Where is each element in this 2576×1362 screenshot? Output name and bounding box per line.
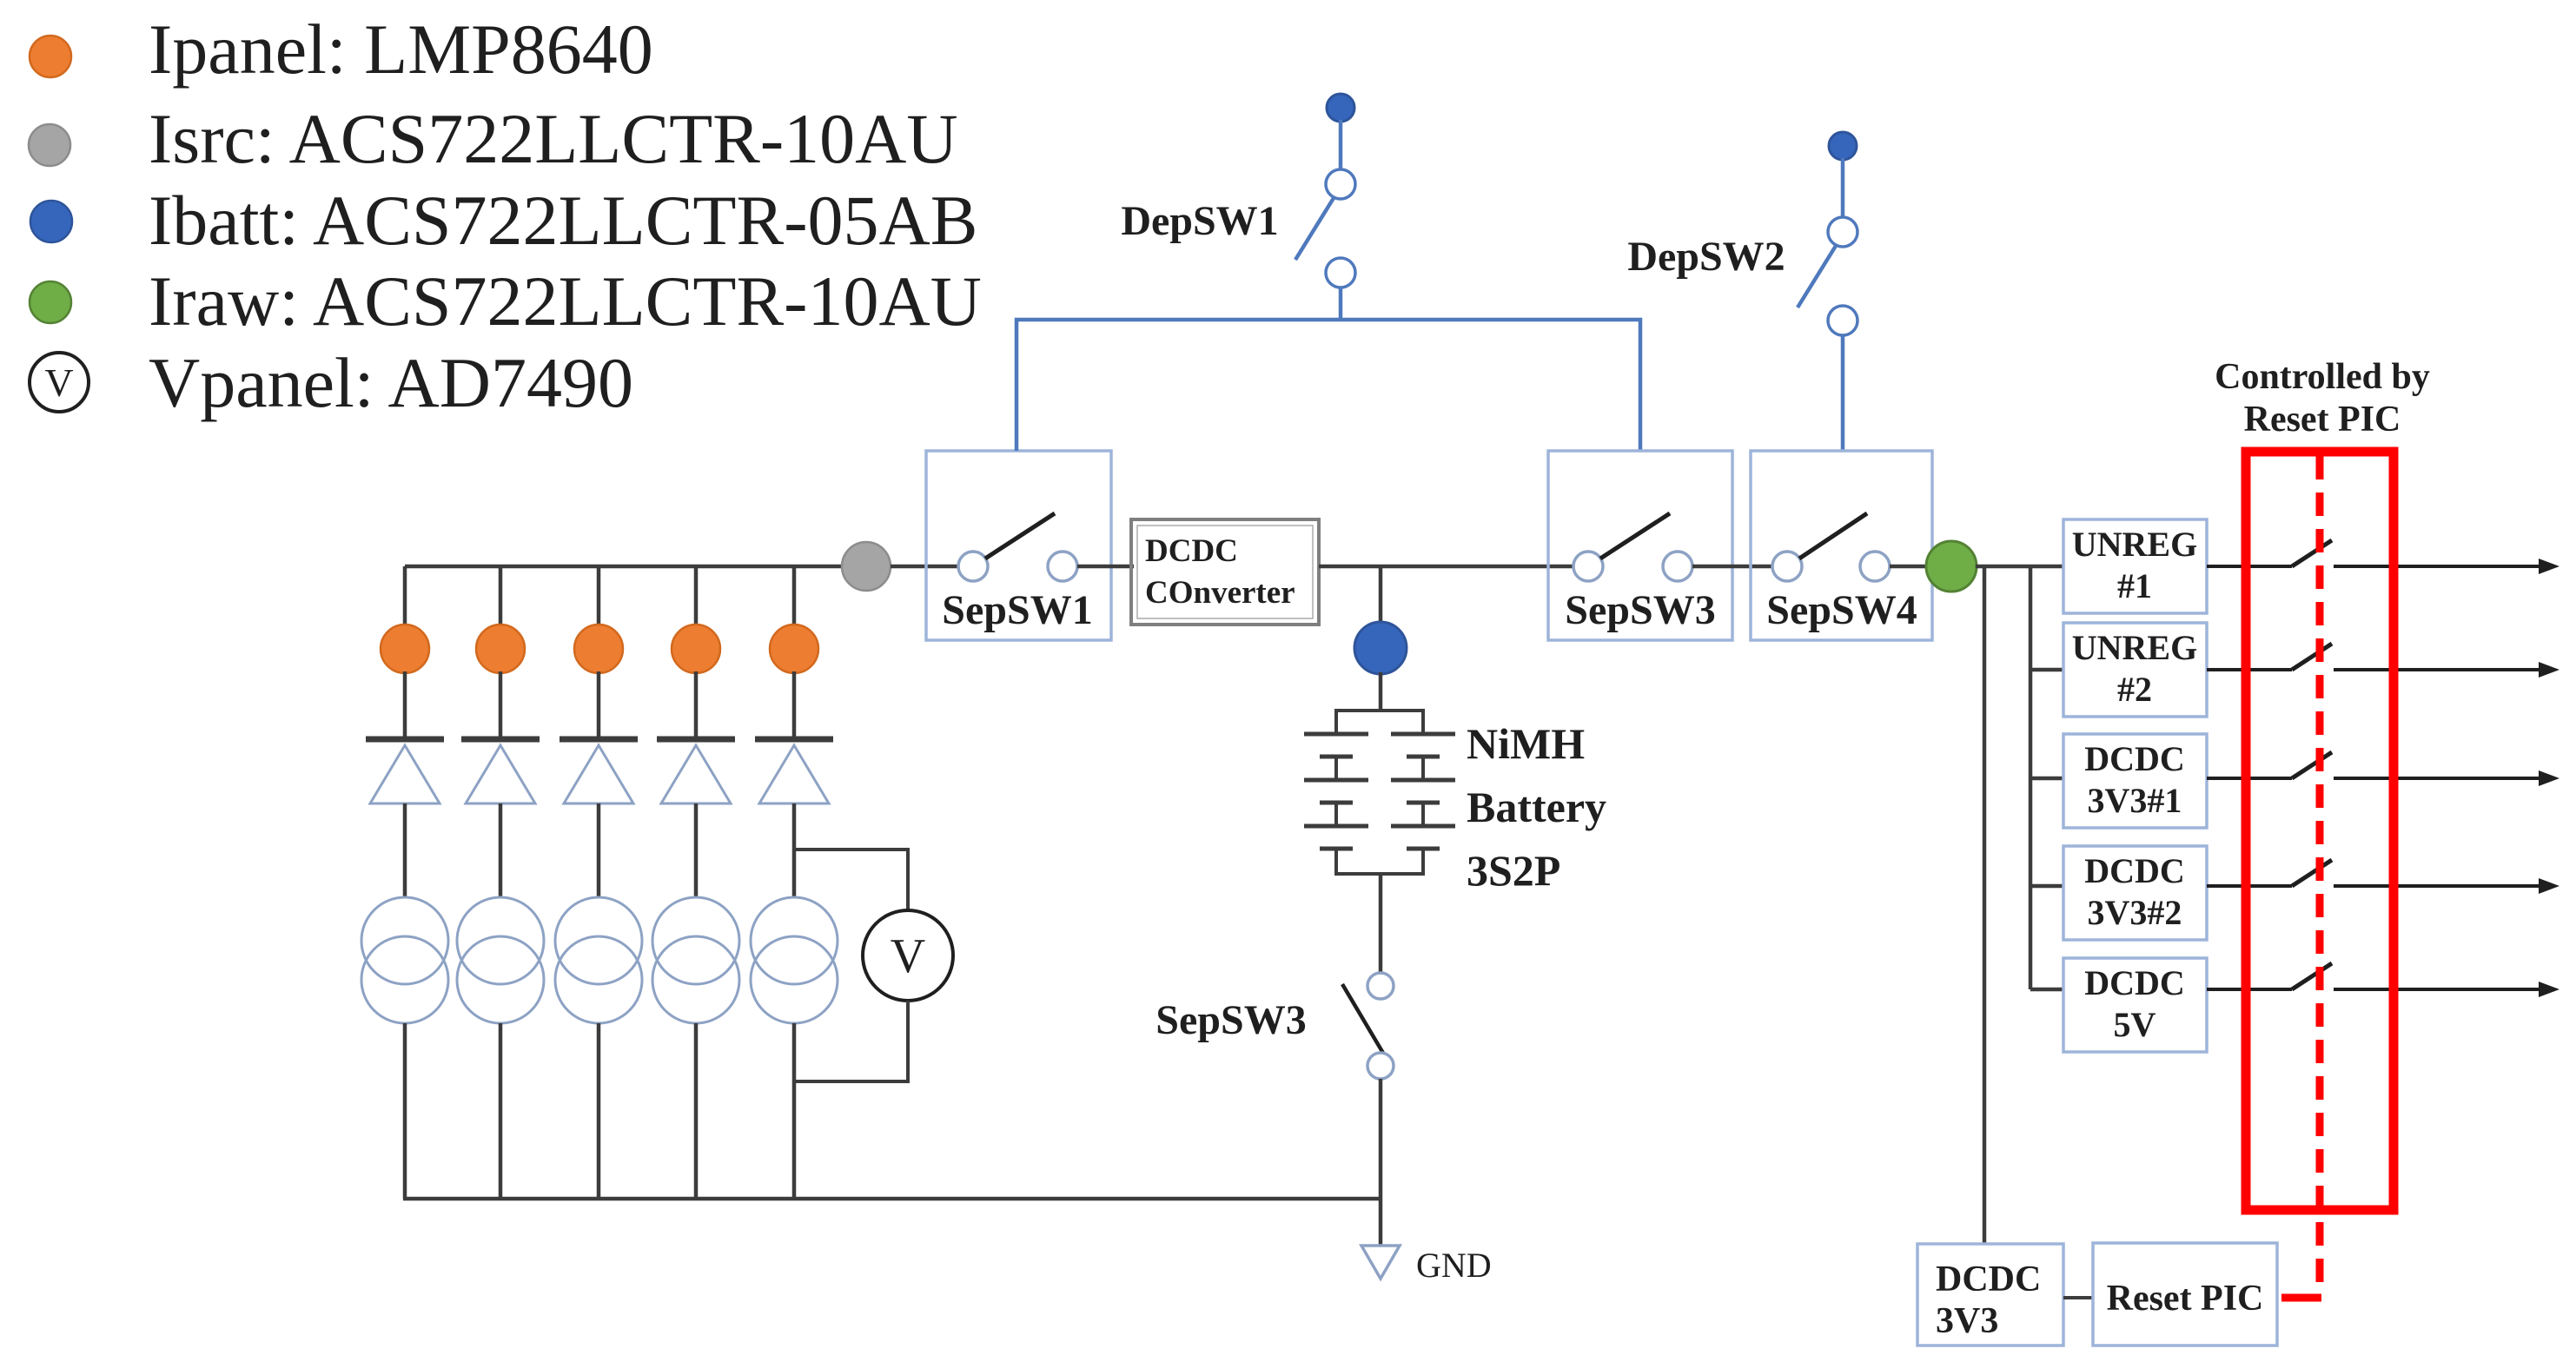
current source CS3 (solar cell string): [555, 897, 642, 1023]
svg-text:GND: GND: [1416, 1246, 1492, 1285]
svg-text:Ipanel: LMP8640: Ipanel: LMP8640: [149, 10, 653, 89]
svg-text:SepSW3: SepSW3: [1156, 997, 1306, 1043]
wire output 4 to arrow: [2334, 884, 2542, 888]
svg-text:UNREG: UNREG: [2072, 628, 2197, 667]
battery cell string 2 cell 3 negative plate: [1407, 847, 1440, 851]
wire solar branch 4 upper: [694, 566, 699, 626]
battery cell string 2 stub 3: [1421, 849, 1425, 874]
block converter UNREG #1: [2063, 519, 2207, 613]
wire DepSW1 upper: [1339, 120, 1343, 170]
switch SepSW3(batt) contact top: [1367, 973, 1394, 999]
wire solar branch 2 dot-to-diode: [499, 671, 503, 739]
svg-text:Iraw: ACS722LLCTR-10AU: Iraw: ACS722LLCTR-10AU: [149, 261, 982, 340]
diode D5 cathode bar: [755, 737, 833, 743]
wire solar branch 2 diode-to-source: [499, 803, 503, 898]
switch SepSW4 contact right: [1860, 552, 1890, 581]
svg-text:UNREG: UNREG: [2072, 525, 2197, 564]
switch DepSW1 contact top: [1326, 169, 1355, 199]
battery NiMH 3S2P top bus: [1334, 709, 1425, 712]
svg-text:Vpanel: AD7490: Vpanel: AD7490: [149, 343, 633, 422]
voltmeter Vpanel: [863, 910, 953, 1001]
wire vertical feeder to output converters: [2029, 566, 2033, 989]
switch output 5 arm: [2292, 963, 2332, 989]
switch SepSW3 arm: [1600, 513, 1670, 559]
arrowhead output 5: [2539, 982, 2559, 997]
wire solar array bottom bus: [403, 1197, 1381, 1201]
svg-text:Ibatt: ACS722LLCTR-05AB: Ibatt: ACS722LLCTR-05AB: [149, 181, 977, 260]
block Reset PIC: [2093, 1243, 2277, 1345]
wire blue-dot to battery: [1379, 672, 1383, 711]
node Iraw sensor dot (green): [1926, 541, 1977, 592]
svg-text:#2: #2: [2117, 670, 2152, 709]
svg-text:NiMH: NiMH: [1467, 719, 1585, 768]
wire switch to ground: [1379, 1079, 1383, 1246]
legend dot Ipanel (orange): [30, 36, 71, 77]
wire converter 4 output: [2207, 884, 2292, 888]
wire DepSW2 to SepSW4: [1841, 334, 1845, 451]
block DCDC 3V3: [1917, 1244, 2063, 1345]
wire output 1 to arrow: [2334, 565, 2542, 568]
wire feeder stub to converter 4: [2030, 884, 2063, 889]
node Ipanel sensor dot 5 (orange): [770, 625, 818, 673]
switch output 2 arm: [2292, 644, 2332, 670]
svg-text:DepSW1: DepSW1: [1121, 198, 1278, 244]
block DCDC COnverter (inner border): [1137, 526, 1313, 618]
switch box SepSW3: [1548, 451, 1732, 640]
svg-text:V: V: [891, 929, 925, 983]
wire SepSW1 to DCDC converter: [1077, 565, 1134, 569]
switch DepSW1 contact bottom: [1326, 258, 1355, 288]
svg-text:3V3#2: 3V3#2: [2088, 893, 2182, 932]
switch SepSW3 contact right: [1663, 552, 1692, 581]
svg-text:COnverter: COnverter: [1145, 575, 1295, 611]
node DepSW2 terminal dot (blue): [1829, 132, 1857, 160]
svg-text:SepSW1: SepSW1: [942, 587, 1092, 633]
ground GND symbol: [1361, 1246, 1400, 1279]
switch SepSW1 contact right: [1048, 552, 1077, 581]
wire solar branch 5 upper: [792, 566, 797, 626]
diode D1 triangle: [370, 745, 440, 803]
legend dot Iraw (green): [30, 281, 71, 323]
switch DepSW2 contact top: [1828, 217, 1858, 247]
wire raw bus to UNREG#1: [1976, 565, 2063, 569]
battery cell string 1 stub 1: [1334, 757, 1338, 780]
wire solar branch 2 upper: [499, 566, 503, 626]
wire solar branch 1 diode-to-source: [403, 803, 407, 898]
node DepSW1 terminal dot (blue): [1327, 94, 1354, 122]
wire Vpanel tap top: [794, 850, 908, 910]
switch output 3 arm: [2292, 752, 2332, 778]
wire output 3 to arrow: [2334, 777, 2542, 780]
block converter DCDC 5V: [2063, 958, 2207, 1052]
diode D3 triangle: [564, 745, 633, 803]
diode D2 cathode bar: [461, 737, 540, 743]
diode D1 cathode bar: [366, 737, 444, 743]
wire solar branch 3 lower: [597, 1023, 601, 1199]
svg-text:Reset PIC: Reset PIC: [2244, 400, 2401, 440]
battery bottom bus: [1334, 872, 1425, 876]
node Ipanel sensor dot 2 (orange): [476, 625, 525, 673]
arrowhead output 4: [2539, 878, 2559, 894]
diode D3 cathode bar: [560, 737, 638, 743]
svg-text:Isrc: ACS722LLCTR-10AU: Isrc: ACS722LLCTR-10AU: [149, 99, 958, 178]
block converter DCDC 3V3#2: [2063, 846, 2207, 940]
wire converter 5 output: [2207, 988, 2292, 991]
switch SepSW1 contact left: [958, 552, 988, 581]
wire gray-dot to SepSW1: [891, 565, 959, 569]
legend dot Isrc (gray): [29, 124, 70, 166]
wire feeder stub to converter 5: [2030, 988, 2063, 992]
svg-text:Battery: Battery: [1467, 783, 1606, 831]
wire solar branch 3 dot-to-diode: [597, 671, 601, 739]
wire feeder stub to converter 2: [2030, 668, 2063, 672]
svg-text:Controlled by: Controlled by: [2215, 357, 2430, 397]
svg-text:DCDC: DCDC: [1936, 1260, 2041, 1299]
wire DCDC converter to SepSW3: [1319, 565, 1574, 569]
wire DepSW1 to bus: [1339, 287, 1343, 320]
svg-text:3V3#1: 3V3#1: [2088, 781, 2182, 820]
current source CS4 (solar cell string): [652, 897, 739, 1023]
switch DepSW2 arm: [1798, 246, 1836, 307]
switch DepSW2 contact bottom: [1828, 306, 1858, 335]
wire solar branch 5 diode-to-source: [792, 803, 797, 898]
wire solar branch 3 upper: [597, 566, 601, 626]
switch SepSW4 contact left: [1772, 552, 1802, 581]
battery cell string 1 cell 1 positive plate: [1304, 732, 1368, 737]
block DCDC COnverter (outer border): [1131, 519, 1319, 625]
wire vertical feeder to DCDC 3V3: [1983, 566, 1987, 1244]
battery cell string 1 cell 2 negative plate: [1320, 801, 1353, 805]
svg-text:DCDC: DCDC: [2084, 739, 2185, 778]
battery cell string 2 stub 1: [1421, 757, 1425, 780]
current source CS1 (solar cell string): [361, 897, 448, 1023]
switch box SepSW1: [926, 451, 1111, 640]
battery cell string 2 stub 2: [1421, 803, 1425, 826]
node Ipanel sensor dot 3 (orange): [574, 625, 623, 673]
wire converter 1 output: [2207, 565, 2292, 568]
svg-text:5V: 5V: [2114, 1005, 2156, 1044]
switch SepSW4 arm: [1799, 513, 1867, 559]
arrowhead output 1: [2539, 559, 2559, 574]
wire feeder stub to converter 3: [2030, 777, 2063, 781]
switch output 1 arm: [2292, 540, 2332, 566]
wire converter 3 output: [2207, 777, 2292, 780]
wire DCDC 3V3 to Reset PIC: [2063, 1296, 2093, 1299]
switch SepSW3(batt) arm: [1342, 984, 1384, 1055]
svg-text:V: V: [44, 360, 73, 405]
switch output 4 arm: [2292, 860, 2332, 886]
svg-text:Reset PIC: Reset PIC: [2107, 1279, 2264, 1319]
wire solar branch 5 dot-to-diode: [792, 671, 797, 739]
battery cell string 1 cell 3 positive plate: [1304, 824, 1368, 829]
node Ipanel sensor dot 4 (orange): [672, 625, 720, 673]
wire converter 2 output: [2207, 668, 2292, 671]
arrowhead output 2: [2539, 662, 2559, 678]
wire Vpanel tap bottom: [794, 1001, 908, 1081]
node Isrc sensor dot (gray): [842, 542, 891, 591]
wire solar branch 4 dot-to-diode: [694, 671, 699, 739]
wire battery branch upper: [1379, 566, 1383, 624]
switch SepSW1 arm: [985, 513, 1055, 559]
battery cell string 1 cell 3 negative plate: [1320, 847, 1353, 851]
diode D2 triangle: [466, 745, 535, 803]
svg-text:SepSW3: SepSW3: [1565, 587, 1715, 633]
wire solar branch 1 dot-to-diode: [403, 671, 407, 739]
battery cell string 1 cell 1 negative plate: [1320, 755, 1353, 759]
battery cell string 2 cell 3 positive plate: [1391, 824, 1455, 829]
diode D4 triangle: [661, 745, 731, 803]
red connector Reset PIC to control line: [2281, 1294, 2321, 1302]
svg-text:3S2P: 3S2P: [1467, 846, 1560, 895]
battery cell string 1 stub 3: [1334, 849, 1338, 874]
battery cell string 2 cell 2 negative plate: [1407, 801, 1440, 805]
wire solar branch 1 lower: [403, 1023, 407, 1199]
wire solar branch 5 lower: [792, 1023, 797, 1199]
red control boundary box (Controlled by Reset PIC): [2246, 452, 2394, 1210]
svg-text:3V3: 3V3: [1936, 1301, 1998, 1341]
wire solar branch 3 diode-to-source: [597, 803, 601, 898]
battery cell string 2 cell 1 positive plate: [1391, 732, 1455, 737]
svg-text:DCDC: DCDC: [2084, 963, 2185, 1002]
red dashed control line: [2316, 456, 2324, 1286]
node Ipanel sensor dot 1 (orange): [381, 625, 429, 673]
switch DepSW1 arm: [1295, 198, 1334, 260]
svg-text:DCDC: DCDC: [1145, 533, 1238, 569]
arrowhead output 3: [2539, 770, 2559, 786]
battery cell string 1 cell 2 positive plate: [1304, 778, 1368, 783]
node Ibatt sensor dot (blue): [1354, 622, 1407, 674]
current source CS2 (solar cell string): [457, 897, 544, 1023]
diode D5 triangle: [759, 745, 829, 803]
diode D4 cathode bar: [657, 737, 735, 743]
svg-text:DCDC: DCDC: [2084, 851, 2185, 890]
wire SepSW4 to green dot: [1890, 565, 1951, 569]
wire deployment-switch bus: [1016, 320, 1640, 451]
wire DepSW2 upper: [1841, 158, 1845, 218]
wire battery to switch: [1379, 874, 1383, 974]
battery cell string 2 cell 1 negative plate: [1407, 755, 1440, 759]
battery cell string 1 stub 2: [1334, 803, 1338, 826]
switch SepSW3 contact left: [1573, 552, 1603, 581]
wire output 2 to arrow: [2334, 668, 2542, 671]
wire solar branch 4 diode-to-source: [694, 803, 699, 898]
switch SepSW3(batt) contact bottom: [1367, 1053, 1394, 1079]
wire solar branch 2 lower: [499, 1023, 503, 1199]
battery top end stubs: [1334, 711, 1338, 734]
current source CS5 (solar cell string): [751, 897, 838, 1023]
svg-text:#1: #1: [2117, 566, 2152, 605]
wire output 5 to arrow: [2334, 988, 2542, 991]
switch box SepSW4: [1751, 451, 1932, 640]
wire solar array top bus: [405, 565, 866, 569]
svg-text:DepSW2: DepSW2: [1627, 234, 1785, 280]
block converter DCDC 3V3#1: [2063, 734, 2207, 828]
battery cell string 2 cell 2 positive plate: [1391, 778, 1455, 783]
wire solar branch 4 lower: [694, 1023, 699, 1199]
wire solar branch 1 upper: [403, 566, 407, 626]
legend symbol Vpanel (circled V): [30, 353, 89, 412]
block converter UNREG #2: [2063, 623, 2207, 717]
wire SepSW3 to SepSW4: [1692, 565, 1773, 569]
svg-text:SepSW4: SepSW4: [1766, 587, 1917, 633]
legend dot Ibatt (blue): [30, 201, 72, 242]
